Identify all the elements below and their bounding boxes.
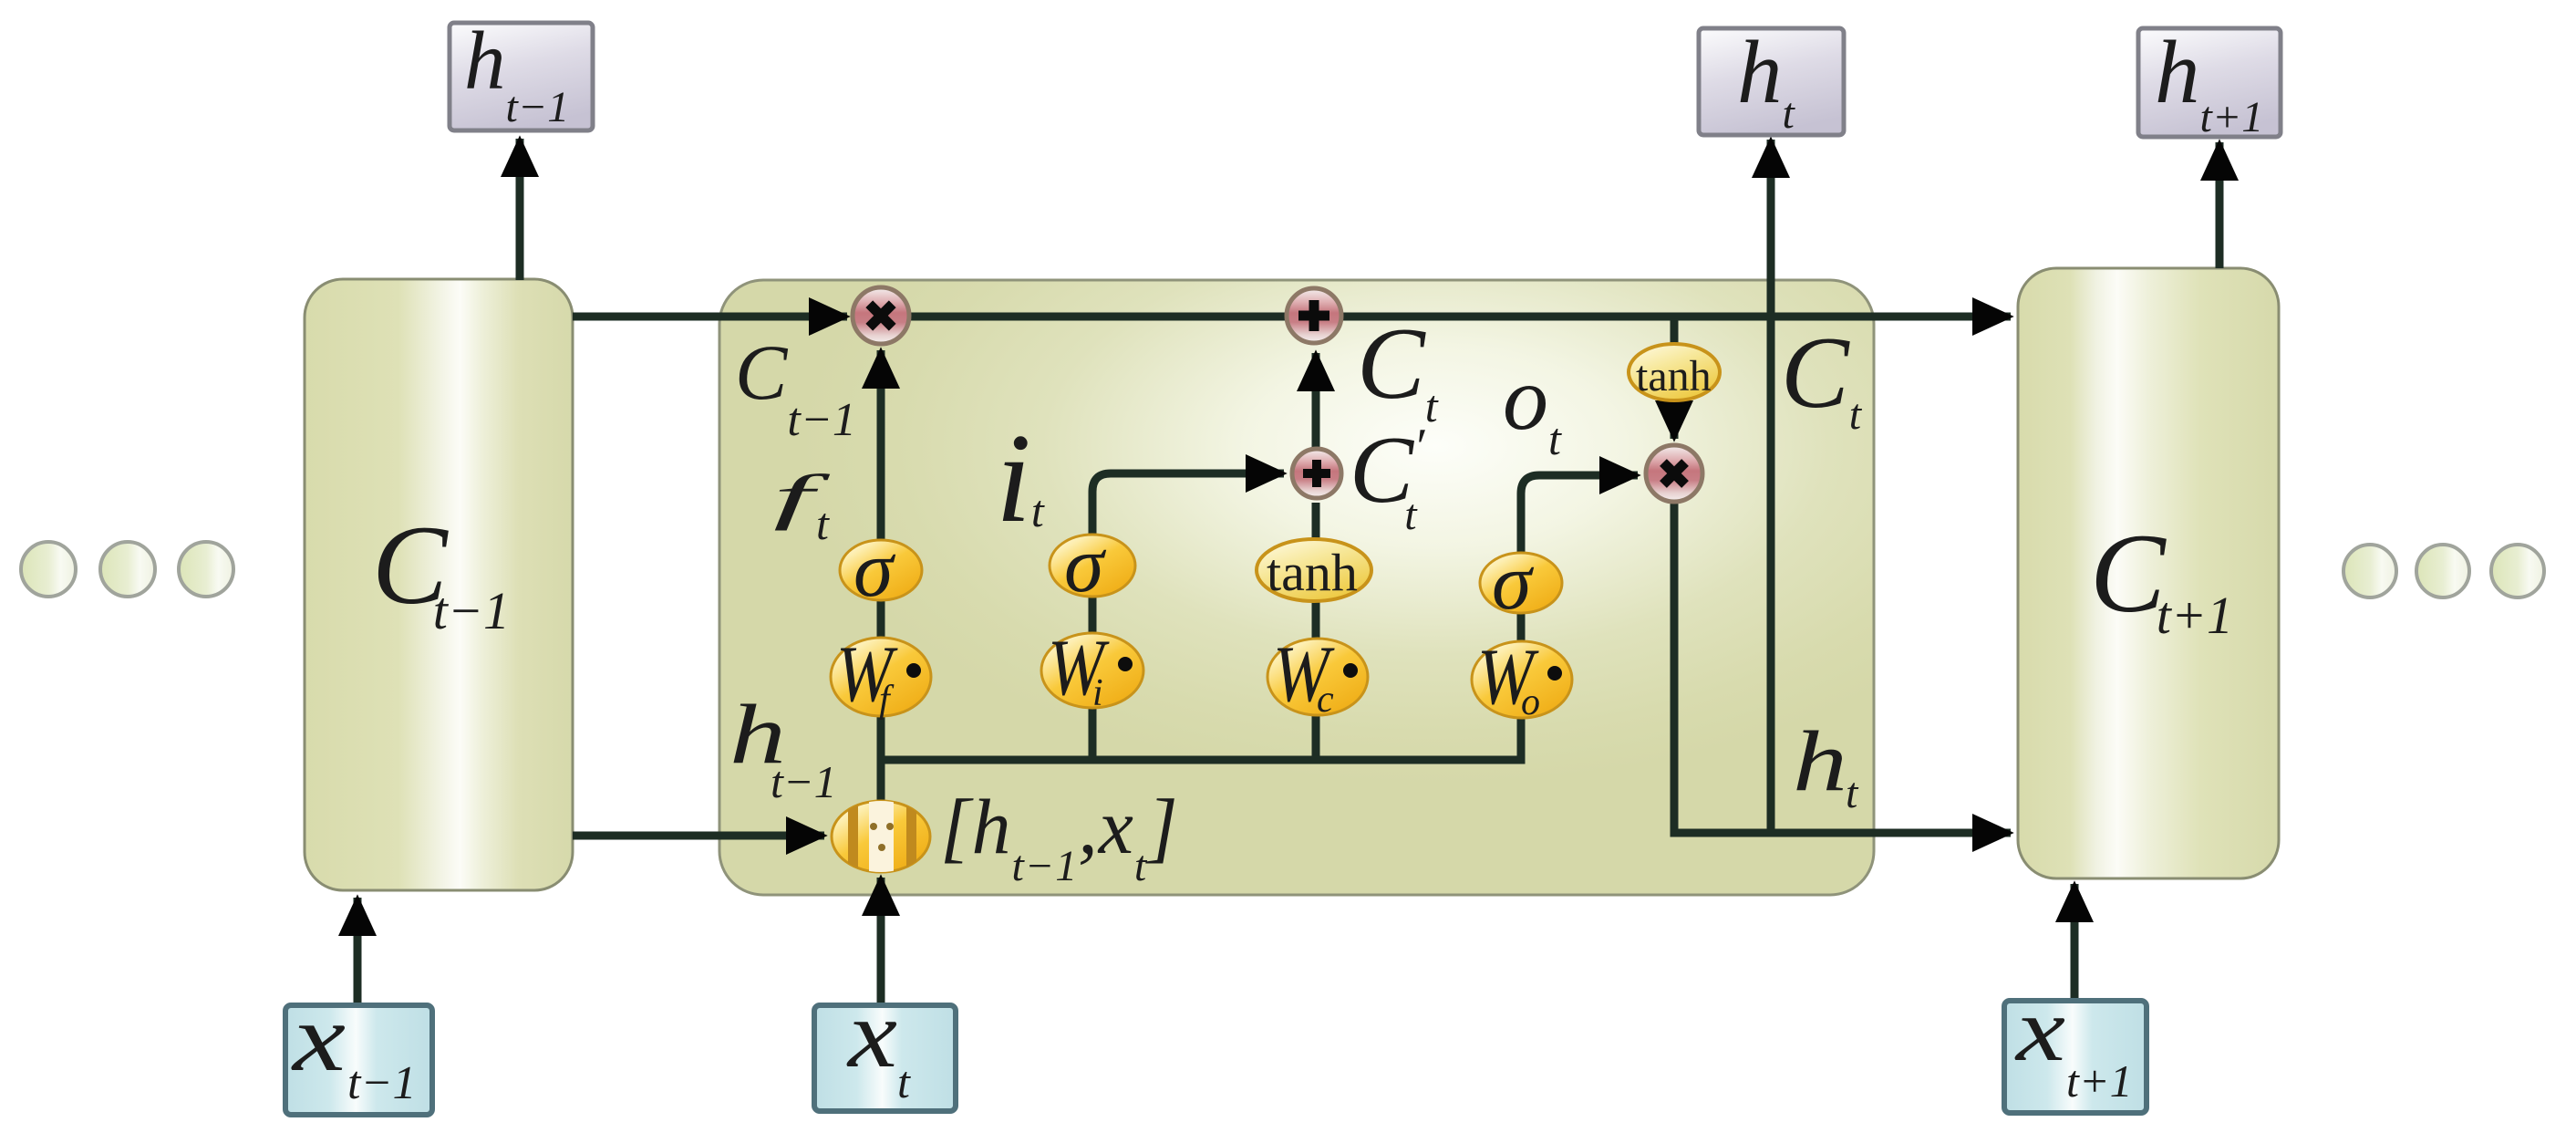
- svg-text:o: o: [1521, 681, 1540, 723]
- svg-text:c: c: [1317, 679, 1334, 721]
- svg-text:tanh: tanh: [1636, 352, 1712, 400]
- svg-text:x: x: [291, 984, 346, 1091]
- svg-text:t−1: t−1: [347, 1057, 417, 1109]
- svg-text:t: t: [1846, 769, 1859, 817]
- svg-text:h: h: [1793, 714, 1847, 809]
- svg-text:σ: σ: [1492, 538, 1535, 627]
- svg-text:σ: σ: [853, 525, 896, 614]
- svg-text:t+1: t+1: [2066, 1055, 2133, 1107]
- svg-text:t: t: [816, 498, 830, 549]
- svg-text:σ: σ: [1064, 521, 1107, 609]
- svg-text:x: x: [846, 981, 897, 1087]
- svg-text:i: i: [1092, 672, 1103, 714]
- svg-text:x: x: [2014, 979, 2065, 1080]
- svg-text:tanh: tanh: [1267, 543, 1358, 602]
- svg-text:t: t: [897, 1056, 911, 1107]
- svg-text:t−1: t−1: [771, 756, 837, 807]
